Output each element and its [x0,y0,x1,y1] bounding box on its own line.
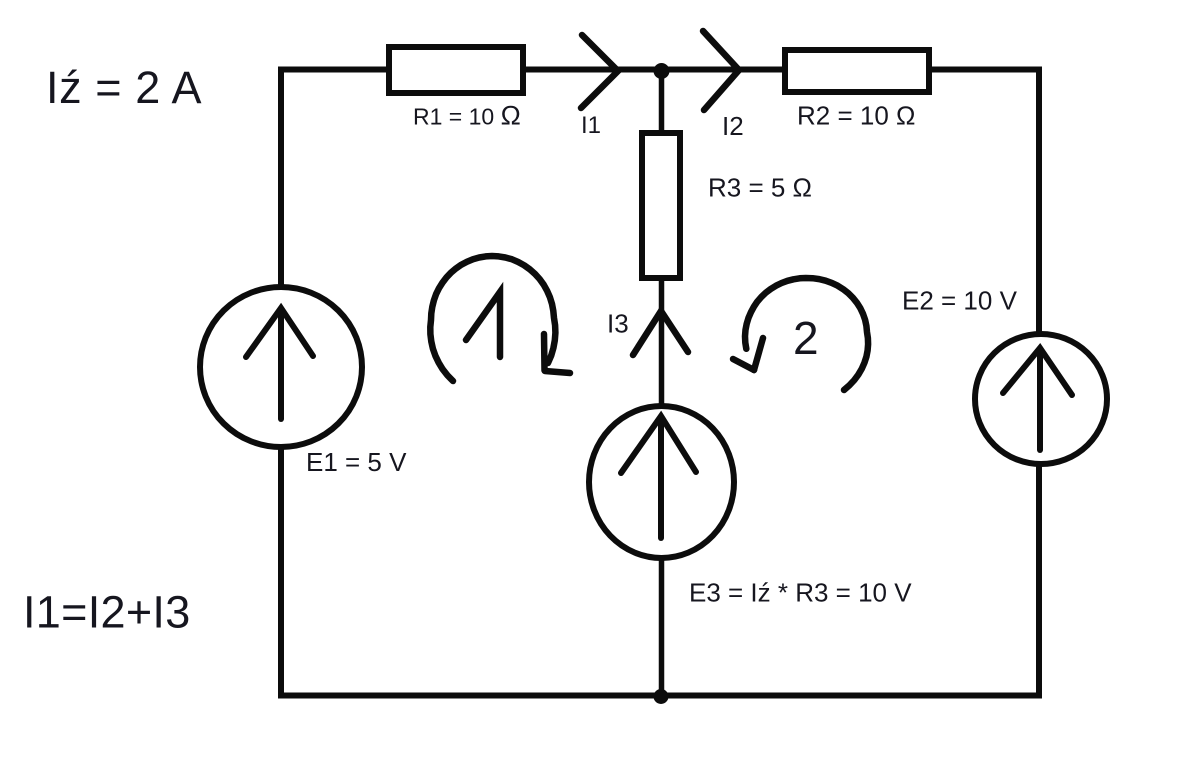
svg-text:I3: I3 [607,309,629,339]
source E1 (circle with up arrow) [200,287,362,447]
svg-text:I1: I1 [581,112,601,139]
label R2 = 10 Ω [797,100,915,130]
svg-text:I1=I2+I3: I1=I2+I3 [23,587,191,638]
source E3 (circle with up arrow) [589,406,734,558]
current arrow I2 (chevron on top wire) [703,31,739,110]
resistor R2 [785,50,929,92]
wire: middle vertical branch from top node to bottom node [659,70,665,696]
node junction top (dot) [654,63,670,79]
svg-text:Iź = 2 A: Iź = 2 A [46,62,202,113]
source E2 (circle with up arrow) [975,334,1107,464]
node junction bottom (dot) [654,689,669,704]
svg-text:2: 2 [793,312,819,364]
label I2 [722,111,744,141]
svg-text:E2 = 10 V: E2 = 10 V [902,286,1018,316]
svg-text:I2: I2 [722,111,744,141]
svg-text:R3 = 5 Ω: R3 = 5 Ω [708,172,812,202]
label R1 = 10 Ω [413,101,521,131]
svg-text:R2 = 10 Ω: R2 = 10 Ω [797,100,915,130]
label R3 = 5 Ω [708,172,812,202]
label I1=I2+I3 (KCL equation) [23,587,191,638]
resistor R1 [389,47,523,93]
mesh loop 2 arrow (arc with arrowhead) [733,278,868,390]
resistor R3 [642,133,680,278]
current arrow I3 (chevron on middle branch, pointing up) [633,311,688,355]
svg-text:E3 = Iź * R3 = 10 V: E3 = Iź * R3 = 10 V [689,578,912,608]
mesh loop 1 arrow (arc with arrowhead and hand-drawn 1) [430,256,570,381]
svg-text:E1 = 5 V: E1 = 5 V [306,447,407,477]
current arrow I1 (chevron on top wire) [581,35,618,108]
label E2 = 10 V [902,286,1018,316]
label E3 = Iź * R3 = 10 V [689,578,912,608]
label loop 2 [793,312,819,364]
wire: outer rectangle loop (top, right, bottom, left sides) [281,70,1039,696]
label E1 = 5 V [306,447,407,477]
label I1 [581,112,601,139]
label I3 [607,309,629,339]
label Iź = 2 A (source current annotation) [46,62,202,113]
svg-text:R1 = 10 Ω: R1 = 10 Ω [413,101,521,131]
